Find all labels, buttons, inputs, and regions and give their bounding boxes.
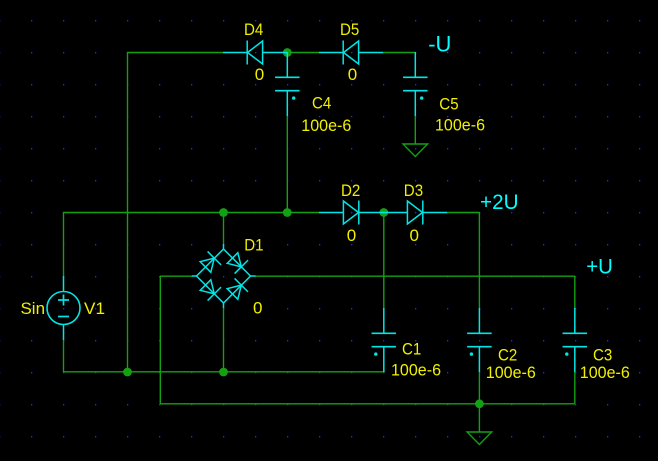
node D2-D3-C1 junction	[379, 208, 388, 217]
capacitor C3	[563, 308, 588, 372]
svg-text:100e-6: 100e-6	[435, 116, 485, 135]
wire left vertical x127	[127, 52, 129, 372]
wire D3 to +2U corner	[447, 212, 480, 214]
svg-text:100e-6: 100e-6	[580, 363, 630, 382]
wire +U row y=276	[255, 275, 575, 277]
wire top-left horizontal	[127, 52, 223, 54]
capacitor C5	[403, 52, 428, 116]
node ground junction	[475, 399, 484, 408]
svg-text:+U: +U	[586, 256, 613, 279]
svg-text:100e-6: 100e-6	[301, 116, 351, 135]
wire V1 bottom vertical	[63, 340, 65, 372]
wire +2U down to C2	[478, 212, 480, 308]
svg-text:Sin: Sin	[21, 299, 46, 318]
ground at bottom bus	[467, 432, 492, 445]
wire D2-D3 junction down to C1	[383, 212, 385, 308]
svg-text:D1: D1	[244, 236, 263, 255]
svg-text:D5: D5	[340, 20, 359, 39]
wire bottom row y=372	[63, 371, 385, 373]
svg-text:D3: D3	[404, 181, 423, 200]
svg-text:-U: -U	[428, 32, 451, 57]
voltage source V1	[47, 276, 80, 340]
svg-text:V1: V1	[84, 299, 105, 318]
svg-text:0: 0	[410, 226, 419, 245]
wire D5 to -U corner	[383, 52, 415, 54]
svg-text:0: 0	[253, 299, 262, 318]
svg-text:0: 0	[255, 65, 264, 84]
wire bridge top	[223, 212, 225, 244]
node V1- junction	[123, 368, 132, 377]
diode bridge D1	[192, 244, 256, 308]
wire bridge left	[160, 275, 191, 277]
wire C5 ground stem	[414, 116, 416, 144]
svg-text:0: 0	[348, 65, 357, 84]
svg-text:D2: D2	[341, 181, 360, 200]
svg-text:C1: C1	[402, 340, 421, 359]
svg-text:D4: D4	[244, 20, 263, 39]
wire D4-D5	[287, 52, 319, 54]
wire +U corner down to C3	[574, 276, 576, 308]
svg-text:C3: C3	[593, 346, 612, 365]
wire C3 bottom to bus	[574, 372, 576, 404]
svg-text:0: 0	[347, 226, 356, 245]
wire ground stem	[478, 404, 480, 432]
wire C4 bottom to row	[286, 116, 288, 212]
wire C2 bottom to bus	[478, 372, 480, 404]
wire bridge bottom	[223, 308, 225, 372]
wire ground bus y=404	[160, 403, 575, 405]
node bridge-bottom junction	[219, 368, 228, 377]
diode D3	[383, 201, 447, 225]
node D4-D5-C4 junction	[283, 48, 292, 57]
svg-text:C2: C2	[498, 346, 517, 365]
capacitor C2	[467, 308, 492, 372]
wire V1 top corner to D2	[63, 212, 319, 214]
svg-text:100e-6: 100e-6	[486, 363, 536, 382]
svg-text:C4: C4	[312, 94, 331, 113]
diode D2	[319, 201, 383, 225]
ground under C5	[403, 144, 428, 157]
capacitor C4	[275, 52, 300, 116]
diode D5	[319, 41, 383, 65]
capacitor C1	[372, 308, 397, 372]
wire V1 top vertical	[63, 212, 65, 276]
svg-text:C5: C5	[439, 95, 458, 114]
node bridge-top junction	[219, 208, 228, 217]
diode D4	[223, 41, 287, 65]
svg-text:+2U: +2U	[480, 191, 519, 214]
wire left AC vertical x160	[159, 276, 161, 404]
node C4-row junction	[283, 208, 292, 217]
svg-text:100e-6: 100e-6	[391, 361, 441, 380]
